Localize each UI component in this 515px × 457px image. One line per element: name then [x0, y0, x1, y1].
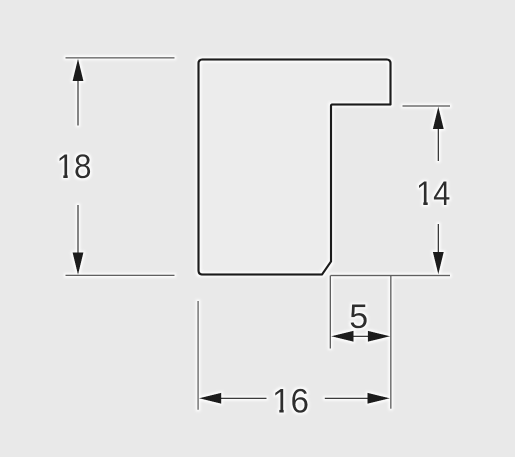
- dimension line 14 lower shaft: [437, 224, 439, 258]
- dimension line 16 left shaft: [218, 397, 267, 399]
- extension line 5 right / 16 right: [390, 276, 392, 409]
- extension line 16 left: [197, 301, 199, 410]
- arrowhead 16 right: [368, 393, 391, 404]
- extension line 5 left: [329, 276, 331, 349]
- arrowhead 18 down: [73, 253, 84, 276]
- arrowhead 14 up: [433, 107, 444, 130]
- extension line 14 bottom: [331, 275, 451, 277]
- extension line bottom-left (18 bottom): [66, 274, 175, 276]
- arrowhead 5 right: [368, 331, 391, 342]
- extension line top-left (18 top): [66, 57, 175, 59]
- dimension line 16 right shaft: [325, 397, 370, 399]
- svg-text:5: 5: [349, 298, 368, 336]
- arrowhead 18 up: [73, 59, 84, 82]
- moulding profile outline: [199, 60, 391, 275]
- arrowhead 16 left: [199, 393, 222, 404]
- moulding profile fill: [199, 60, 391, 275]
- dimension line 14 upper shaft: [437, 123, 439, 161]
- extension line 14 top: [403, 105, 451, 107]
- dimension line 18 upper shaft: [77, 75, 79, 126]
- dimension line 18 lower shaft: [77, 205, 79, 260]
- dimension line 5 shaft: [352, 335, 370, 337]
- arrowhead 14 down: [433, 252, 444, 275]
- arrowhead 5 left: [331, 331, 354, 342]
